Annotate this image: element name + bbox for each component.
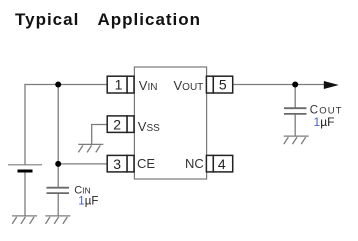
svg-text:1: 1 [115,77,123,93]
wire VIN top rail [24,84,107,86]
svg-text:1µF: 1µF [78,195,98,207]
svg-text:CE: CE [137,156,155,171]
capacitor CIN [47,188,70,193]
wire CIN to ground [57,193,59,216]
svg-text:2: 2 [113,116,121,132]
ground (COUT) [284,136,309,144]
node junction VOUT/COUT [292,82,298,88]
wire battery negative to ground [24,172,26,216]
wire COUT to ground [294,114,296,136]
node junction VIN/CIN rail [55,82,61,88]
svg-text:4: 4 [218,156,226,172]
pin 4 box [206,155,232,172]
wire junction to COUT [294,85,296,109]
svg-text:1µF: 1µF [314,115,335,129]
wire battery positive drop [24,84,26,165]
output arrow VOUT [324,81,339,89]
battery cell [8,165,42,171]
pin 5 box [206,76,232,93]
wire VOUT rail [233,84,327,86]
svg-text:Application: Application [98,10,202,29]
pin 3 box [107,155,134,172]
wire VSS to ground [92,125,107,145]
IC U1 body [134,67,206,179]
capacitor COUT [284,108,307,114]
svg-text:Typical: Typical [15,10,79,29]
svg-text:5: 5 [219,77,227,93]
ground (battery) [12,216,37,224]
ground (CIN) [45,216,70,224]
svg-text:3: 3 [113,156,121,172]
svg-text:NC: NC [185,156,204,171]
pin 2 box [107,116,134,132]
node junction CE/CIN [55,161,61,167]
title Typical Application [15,10,201,29]
wire CE [58,163,107,165]
ground (VSS) [78,144,103,152]
wire mid rail to CIN [57,85,59,188]
pin 1 box [107,76,134,93]
